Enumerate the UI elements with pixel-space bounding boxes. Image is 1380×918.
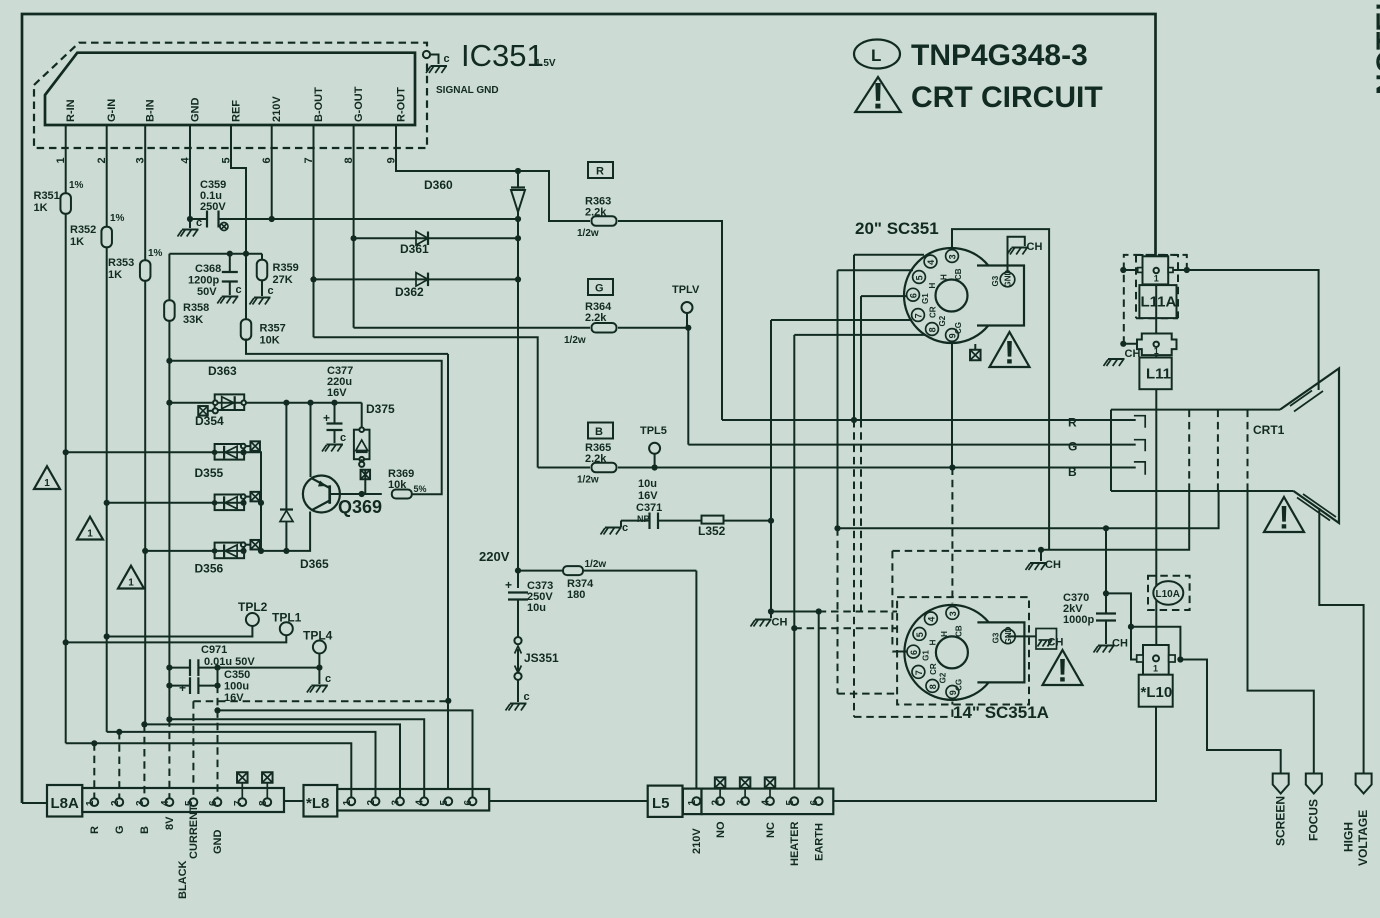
capacitor C971 0.01u 50V bbox=[169, 644, 319, 676]
svg-text:JS351: JS351 bbox=[524, 651, 559, 665]
svg-text:16V: 16V bbox=[638, 490, 658, 502]
transformer L10 bbox=[1137, 645, 1175, 707]
ground CH below bbox=[751, 612, 788, 629]
wire row4 to Q369 bbox=[261, 513, 310, 551]
ground CH boxed at 14in GND pin bbox=[1008, 629, 1063, 650]
label CRT1 bbox=[1253, 423, 1285, 437]
svg-text:4: 4 bbox=[926, 617, 936, 622]
svg-text:c: c bbox=[622, 522, 628, 534]
svg-text:R-OUT: R-OUT bbox=[395, 87, 407, 122]
svg-text:L352: L352 bbox=[698, 524, 726, 538]
photodiode D354 mark bbox=[195, 406, 224, 428]
node TPL4 bottom bbox=[316, 665, 322, 671]
svg-text:1200p: 1200p bbox=[188, 275, 219, 287]
wire G feed down bbox=[687, 328, 689, 445]
wire Q369 base feed bbox=[169, 361, 441, 495]
svg-text:D360: D360 bbox=[424, 178, 453, 192]
ground CH at 20in GND pin bbox=[1007, 237, 1042, 272]
connector *L8 pins 1-6 bbox=[342, 797, 477, 805]
ground SIGNAL GND bbox=[423, 51, 499, 96]
ground CH below C370 bbox=[1094, 638, 1128, 653]
crt cone break marks bottom bbox=[1297, 494, 1336, 521]
connector L5 pins 1-6 bbox=[687, 797, 823, 805]
svg-text:1%: 1% bbox=[69, 180, 84, 191]
svg-text:NO: NO bbox=[715, 821, 727, 838]
node C971 right bbox=[214, 665, 220, 671]
node row1 left bbox=[166, 358, 172, 364]
ground below C359 bbox=[178, 217, 203, 237]
svg-text:c: c bbox=[524, 691, 530, 703]
node D365 bottom bbox=[283, 548, 289, 554]
svg-text:2: 2 bbox=[711, 800, 722, 806]
resistor R352 1K bbox=[70, 213, 125, 248]
svg-text:1: 1 bbox=[85, 800, 96, 806]
node L11 CH bbox=[1120, 341, 1126, 347]
warning triangle 1a bbox=[34, 466, 60, 489]
node D365 top bbox=[283, 400, 289, 406]
svg-text:TPLV: TPLV bbox=[672, 284, 700, 296]
polarity mark below 20in socket bbox=[970, 344, 981, 360]
svg-text:R352: R352 bbox=[70, 224, 96, 236]
capacitor C370 2kV 1000p bbox=[1063, 592, 1116, 644]
svg-text:CG: CG bbox=[954, 322, 963, 334]
svg-text:1: 1 bbox=[1153, 664, 1158, 674]
svg-text:HEATER: HEATER bbox=[789, 822, 801, 866]
svg-text:7: 7 bbox=[914, 670, 924, 675]
svg-text:NOTE!: NOTE! bbox=[1371, 2, 1380, 95]
svg-text:G2: G2 bbox=[938, 672, 947, 683]
node D360 anode bbox=[515, 168, 521, 174]
node C370 line bbox=[1103, 525, 1109, 531]
svg-text:8: 8 bbox=[258, 800, 269, 806]
svg-text:5: 5 bbox=[184, 800, 195, 806]
wire dashed L8A pin6 riser bbox=[217, 710, 219, 798]
svg-text:H: H bbox=[928, 639, 937, 645]
wire R to connectors bbox=[66, 740, 352, 797]
wire G-IN vertical bbox=[106, 148, 108, 732]
wire hv feed bbox=[1319, 508, 1363, 774]
svg-text:B: B bbox=[139, 826, 151, 834]
svg-text:4: 4 bbox=[160, 800, 171, 806]
svg-text:!: ! bbox=[872, 76, 884, 117]
node row3 left bbox=[104, 500, 110, 506]
node row3 crossing bbox=[258, 500, 264, 506]
node D355 row left bbox=[63, 449, 69, 455]
node H to R line bbox=[851, 417, 857, 423]
capacitor C377 220u 16V bbox=[323, 365, 353, 443]
test point TPL4 bbox=[303, 629, 333, 668]
svg-text:TNP4G348-3: TNP4G348-3 bbox=[911, 39, 1088, 72]
svg-text:G3: G3 bbox=[991, 275, 1000, 286]
svg-text:6: 6 bbox=[909, 293, 919, 298]
coil L11A bbox=[1124, 255, 1187, 344]
svg-text:*L8: *L8 bbox=[306, 795, 329, 812]
wire 20in socket top loop bbox=[952, 229, 1049, 550]
svg-text:CR: CR bbox=[929, 663, 938, 675]
node C350 left bbox=[166, 683, 172, 689]
svg-text:L11A: L11A bbox=[1141, 294, 1177, 311]
svg-text:G: G bbox=[1068, 440, 1077, 454]
svg-text:3: 3 bbox=[948, 611, 958, 616]
diode D375 bbox=[354, 402, 395, 467]
svg-text:HIGH: HIGH bbox=[1342, 822, 1356, 852]
wire G-OUT vertical bbox=[353, 148, 355, 328]
diode D362 bbox=[310, 273, 521, 299]
svg-text:C350: C350 bbox=[224, 669, 250, 681]
svg-text:7: 7 bbox=[233, 800, 244, 806]
wire B-IN vertical bbox=[144, 148, 146, 724]
svg-text:210V: 210V bbox=[691, 828, 703, 854]
svg-text:G1: G1 bbox=[921, 650, 930, 661]
svg-text:c: c bbox=[268, 285, 274, 297]
svg-text:BLACK: BLACK bbox=[177, 860, 189, 899]
svg-text:R: R bbox=[1068, 416, 1077, 430]
node D354 row left bbox=[166, 400, 172, 406]
test point TPL2 bbox=[107, 600, 268, 637]
svg-text:D361: D361 bbox=[400, 242, 429, 256]
svg-text:C368: C368 bbox=[195, 263, 221, 275]
wire L8 to L5 bbox=[489, 800, 648, 802]
polarity mark D375 bbox=[361, 470, 371, 494]
svg-text:R: R bbox=[596, 166, 604, 178]
svg-text:7: 7 bbox=[914, 313, 924, 318]
svg-text:Q369: Q369 bbox=[338, 497, 382, 517]
svg-text:+: + bbox=[323, 411, 330, 425]
node L11A right bbox=[1173, 267, 1190, 273]
wire Q369 base bbox=[330, 493, 362, 495]
svg-text:8V: 8V bbox=[164, 816, 176, 830]
svg-text:6: 6 bbox=[463, 800, 474, 806]
cathode hook B bbox=[1068, 462, 1145, 479]
svg-text:R353: R353 bbox=[108, 257, 134, 269]
wire dashed CB drop bbox=[951, 468, 953, 604]
svg-text:1: 1 bbox=[1154, 346, 1159, 356]
svg-text:C371: C371 bbox=[636, 502, 662, 514]
diode D365 bbox=[280, 403, 329, 571]
wire GND rail join bbox=[217, 668, 219, 686]
wire 8V rail vertical bbox=[168, 321, 170, 720]
resistor R363 2.2k bbox=[577, 196, 617, 240]
border frame bbox=[22, 14, 1156, 803]
wire R374 to L5 pin1 bbox=[695, 571, 697, 797]
capacitor C359 0.1u 250V bbox=[190, 179, 272, 228]
wire REF pin5 jog bbox=[231, 148, 246, 321]
svg-text:CH: CH bbox=[1112, 638, 1128, 650]
diode D361 bbox=[351, 232, 522, 257]
resistor R359 27K bbox=[257, 254, 299, 286]
node C368 top bbox=[227, 251, 233, 257]
svg-text:27K: 27K bbox=[273, 274, 293, 286]
wire 8V to connectors bbox=[166, 716, 424, 796]
ground below R359 bbox=[250, 280, 274, 305]
wire R363 output to R line bbox=[618, 221, 722, 420]
svg-text:G: G bbox=[595, 283, 604, 295]
svg-text:1000p: 1000p bbox=[1063, 614, 1094, 626]
node CH earth node bbox=[768, 608, 774, 614]
title TNP4G348-3 bbox=[911, 39, 1088, 72]
ground left of C371 bbox=[601, 521, 629, 535]
svg-text:6: 6 bbox=[208, 800, 219, 806]
svg-text:210V: 210V bbox=[271, 96, 283, 122]
warning triangle at 14in socket bbox=[1043, 650, 1083, 689]
wire dashed BLACK CURRENT link bbox=[193, 701, 448, 798]
wire L10 right tab link bbox=[1131, 627, 1180, 660]
node REF crossing bbox=[243, 251, 249, 257]
svg-text:C971: C971 bbox=[201, 644, 227, 656]
socket 20in SC351 bbox=[855, 219, 1025, 343]
ground CH at L11 bbox=[1104, 348, 1141, 366]
node L352 right bbox=[768, 518, 774, 524]
wire dashed L8A pin1 riser bbox=[93, 743, 95, 798]
node L10 branch bbox=[1128, 624, 1134, 630]
svg-text:G1: G1 bbox=[921, 293, 930, 304]
svg-text:1K: 1K bbox=[70, 236, 84, 248]
svg-text:5: 5 bbox=[439, 800, 450, 806]
wire dashed H drop bbox=[853, 420, 855, 717]
svg-text:D355: D355 bbox=[195, 466, 224, 480]
svg-text:4: 4 bbox=[415, 800, 426, 806]
wire dashed crt grid3 bbox=[1247, 410, 1249, 491]
wire dashed heater link bbox=[794, 627, 897, 629]
svg-text:10u: 10u bbox=[527, 602, 546, 614]
logo L oval bbox=[854, 40, 900, 69]
wire pin7-CR feed bbox=[771, 320, 912, 612]
wire R357 to R369 feed bbox=[246, 339, 448, 354]
svg-text:1/2w: 1/2w bbox=[585, 559, 607, 570]
svg-text:180: 180 bbox=[567, 589, 585, 601]
svg-text:SCREEN: SCREEN bbox=[1274, 796, 1288, 846]
wire border to L8A bbox=[22, 802, 47, 804]
svg-text:1: 1 bbox=[44, 478, 50, 489]
wire C368 node row bbox=[169, 253, 262, 255]
node Q369 emitter top bbox=[307, 400, 313, 406]
wire dashed L8A pin4 riser bbox=[168, 719, 170, 798]
svg-text:CB: CB bbox=[954, 625, 963, 637]
resistor R369 10k bbox=[362, 468, 427, 499]
capacitor C373 250V 10u bbox=[505, 571, 553, 637]
diode D355 bbox=[195, 441, 260, 480]
svg-text:H: H bbox=[928, 283, 937, 289]
svg-text:CRT CIRCUIT: CRT CIRCUIT bbox=[911, 81, 1103, 114]
svg-text:D362: D362 bbox=[395, 285, 424, 299]
diode opto row3 bbox=[212, 492, 260, 510]
svg-text:c: c bbox=[325, 673, 331, 685]
svg-text:1.5V: 1.5V bbox=[535, 58, 556, 69]
wire D354 row bbox=[169, 402, 361, 404]
node C350 right bbox=[214, 683, 220, 689]
wire dashed crt grid1 bbox=[1188, 410, 1190, 491]
wire dashed G1 drop bbox=[860, 420, 862, 612]
svg-text:6: 6 bbox=[809, 800, 820, 806]
svg-text:GND: GND bbox=[189, 98, 201, 123]
node L10 right bbox=[1177, 656, 1183, 662]
resistor R357 10K bbox=[241, 319, 286, 346]
svg-text:250V: 250V bbox=[200, 201, 226, 213]
svg-text:1: 1 bbox=[687, 800, 698, 806]
wire GND to connectors bbox=[214, 686, 472, 797]
wire G line bbox=[688, 444, 1135, 446]
wire D356 row bbox=[145, 550, 243, 552]
svg-text:B: B bbox=[595, 426, 603, 438]
node C377 top bbox=[331, 400, 337, 406]
wire dashed heater-1 drop bbox=[838, 528, 898, 693]
svg-text:G: G bbox=[114, 825, 126, 834]
svg-text:50V: 50V bbox=[197, 286, 217, 298]
warning triangle title bbox=[855, 76, 901, 117]
capacitor C371 NP 10u 16V bbox=[621, 478, 702, 529]
diode D360 bbox=[424, 171, 525, 219]
svg-text:*L10: *L10 bbox=[1141, 684, 1173, 701]
svg-text:5: 5 bbox=[915, 632, 925, 637]
svg-text:TPL5: TPL5 bbox=[640, 425, 667, 437]
coil L11 bbox=[1139, 358, 1171, 390]
svg-text:1K: 1K bbox=[108, 269, 122, 281]
node C971 left bbox=[166, 665, 172, 671]
node Q369 base-D375 bbox=[359, 491, 365, 497]
svg-text:c: c bbox=[340, 432, 346, 444]
wire cathode common vertical bbox=[517, 219, 519, 571]
wire L8A to L8 bbox=[284, 800, 304, 802]
wire BLACK-CURRENT vertical bbox=[447, 354, 449, 797]
node TPL1 to R-IN bbox=[63, 639, 69, 645]
svg-text:!: ! bbox=[1004, 335, 1015, 371]
warning triangle at cone bbox=[1264, 497, 1304, 536]
svg-text:L8A: L8A bbox=[51, 795, 80, 812]
svg-text:FOCUS: FOCUS bbox=[1307, 799, 1321, 841]
svg-text:4: 4 bbox=[926, 260, 936, 265]
svg-text:CG: CG bbox=[954, 679, 963, 691]
wire dashed earth link bbox=[819, 611, 897, 613]
node L11A left bbox=[1120, 267, 1137, 273]
diode D356 bbox=[195, 540, 260, 576]
crt cone outline bbox=[1280, 368, 1339, 523]
node C359 junction bbox=[187, 216, 193, 222]
connector *L8 bbox=[304, 785, 490, 817]
svg-text:6: 6 bbox=[909, 650, 919, 655]
svg-text:5%: 5% bbox=[414, 484, 427, 494]
svg-text:CH: CH bbox=[1027, 241, 1043, 253]
ground below TPL4 bbox=[307, 668, 331, 693]
terminal FOCUS bbox=[1306, 774, 1322, 842]
wire R-IN vertical bbox=[65, 148, 67, 743]
wire L11 to L10A bbox=[1155, 389, 1157, 645]
wire dashed 14in socket box bbox=[897, 597, 1029, 704]
crt neck block bbox=[1111, 410, 1294, 491]
svg-text:4: 4 bbox=[761, 800, 772, 806]
node TPL2 to G-IN bbox=[104, 633, 110, 639]
transformer L11 bbox=[1123, 284, 1176, 357]
crt cone break marks top bbox=[1290, 391, 1323, 412]
svg-text:16V: 16V bbox=[327, 387, 347, 399]
net label box B bbox=[588, 423, 613, 439]
title CRT CIRCUIT bbox=[911, 81, 1103, 114]
svg-text:G2: G2 bbox=[938, 315, 947, 326]
wire dashed 14in CG riser bbox=[854, 702, 952, 717]
connector L8A pins 1-8 bbox=[85, 798, 271, 806]
svg-text:REF: REF bbox=[230, 100, 242, 122]
svg-text:R: R bbox=[89, 826, 101, 834]
svg-text:D365: D365 bbox=[300, 557, 329, 571]
svg-text:H: H bbox=[940, 274, 949, 280]
wire D375 to base node bbox=[361, 459, 363, 462]
node G2-CH bbox=[1038, 547, 1044, 553]
svg-text:R359: R359 bbox=[273, 262, 299, 274]
note text right edge bbox=[1371, 2, 1380, 95]
capacitor C350 100u 16V bbox=[169, 669, 250, 704]
resistor R365 2.2k bbox=[538, 442, 655, 486]
svg-text:8: 8 bbox=[928, 327, 938, 332]
wire dashed G2 box bbox=[892, 551, 1041, 653]
wire C370 to L10 left tab bbox=[1106, 593, 1131, 626]
svg-text:c: c bbox=[236, 284, 242, 296]
node D356 right bbox=[240, 548, 246, 554]
svg-text:+: + bbox=[179, 681, 186, 695]
terminal HIGH VOLTAGE bbox=[1342, 774, 1372, 867]
svg-text:3: 3 bbox=[135, 800, 146, 806]
label 220V bbox=[479, 549, 510, 564]
svg-text:1: 1 bbox=[87, 529, 93, 540]
wire screen feed bbox=[1180, 660, 1280, 774]
svg-text:+: + bbox=[505, 578, 512, 592]
svg-text:H: H bbox=[940, 631, 949, 637]
svg-text:D363: D363 bbox=[208, 364, 237, 378]
wire focus feed bbox=[1248, 491, 1314, 774]
svg-text:8: 8 bbox=[928, 684, 938, 689]
wire D355 row bbox=[66, 451, 244, 453]
svg-text:NC: NC bbox=[765, 822, 777, 838]
node C370 feed bbox=[834, 525, 840, 531]
svg-text:3: 3 bbox=[736, 800, 747, 806]
node 210V line bbox=[269, 216, 275, 222]
wire 14in G1 stub bbox=[892, 651, 907, 653]
transformer L10A bbox=[1148, 576, 1190, 610]
svg-text:D356: D356 bbox=[195, 562, 224, 576]
svg-text:CR: CR bbox=[929, 306, 938, 318]
test point TPLV bbox=[672, 284, 700, 328]
svg-text:CB: CB bbox=[954, 268, 963, 280]
svg-text:!: ! bbox=[1057, 653, 1068, 689]
connector L5 bbox=[648, 786, 834, 817]
wire L10 bottom to earth bus bbox=[833, 707, 1156, 801]
svg-text:3: 3 bbox=[391, 800, 402, 806]
resistor R353 1K bbox=[108, 248, 163, 281]
svg-text:L: L bbox=[871, 46, 881, 65]
cathode hook R bbox=[1068, 416, 1145, 430]
svg-text:G-OUT: G-OUT bbox=[353, 86, 365, 122]
svg-text:1%: 1% bbox=[110, 213, 125, 224]
wire 210V pin6 down bbox=[271, 148, 273, 219]
svg-text:1: 1 bbox=[1154, 274, 1159, 284]
svg-text:IC351: IC351 bbox=[461, 38, 544, 73]
svg-text:220V: 220V bbox=[479, 549, 510, 564]
svg-text:1/2w: 1/2w bbox=[564, 335, 586, 346]
wire row2 corner bbox=[244, 452, 262, 551]
node C370 top bbox=[1103, 590, 1109, 596]
svg-text:B-OUT: B-OUT bbox=[313, 87, 325, 122]
svg-text:R351: R351 bbox=[34, 190, 60, 202]
polarity marks L8A pins 7-8 bbox=[237, 772, 272, 798]
svg-text:1: 1 bbox=[342, 800, 353, 806]
wire dashed crt grid2 bbox=[1217, 410, 1219, 491]
connector L8A bbox=[47, 785, 284, 817]
transistor Q369 bbox=[303, 403, 382, 517]
svg-text:NP: NP bbox=[637, 514, 650, 524]
polarity marks L5 pins 2-4 bbox=[715, 777, 775, 797]
wire G to connectors bbox=[107, 729, 376, 797]
wire G2 bus bbox=[1041, 491, 1189, 550]
svg-text:R357: R357 bbox=[260, 323, 286, 335]
svg-text:CRT1: CRT1 bbox=[1253, 423, 1285, 437]
